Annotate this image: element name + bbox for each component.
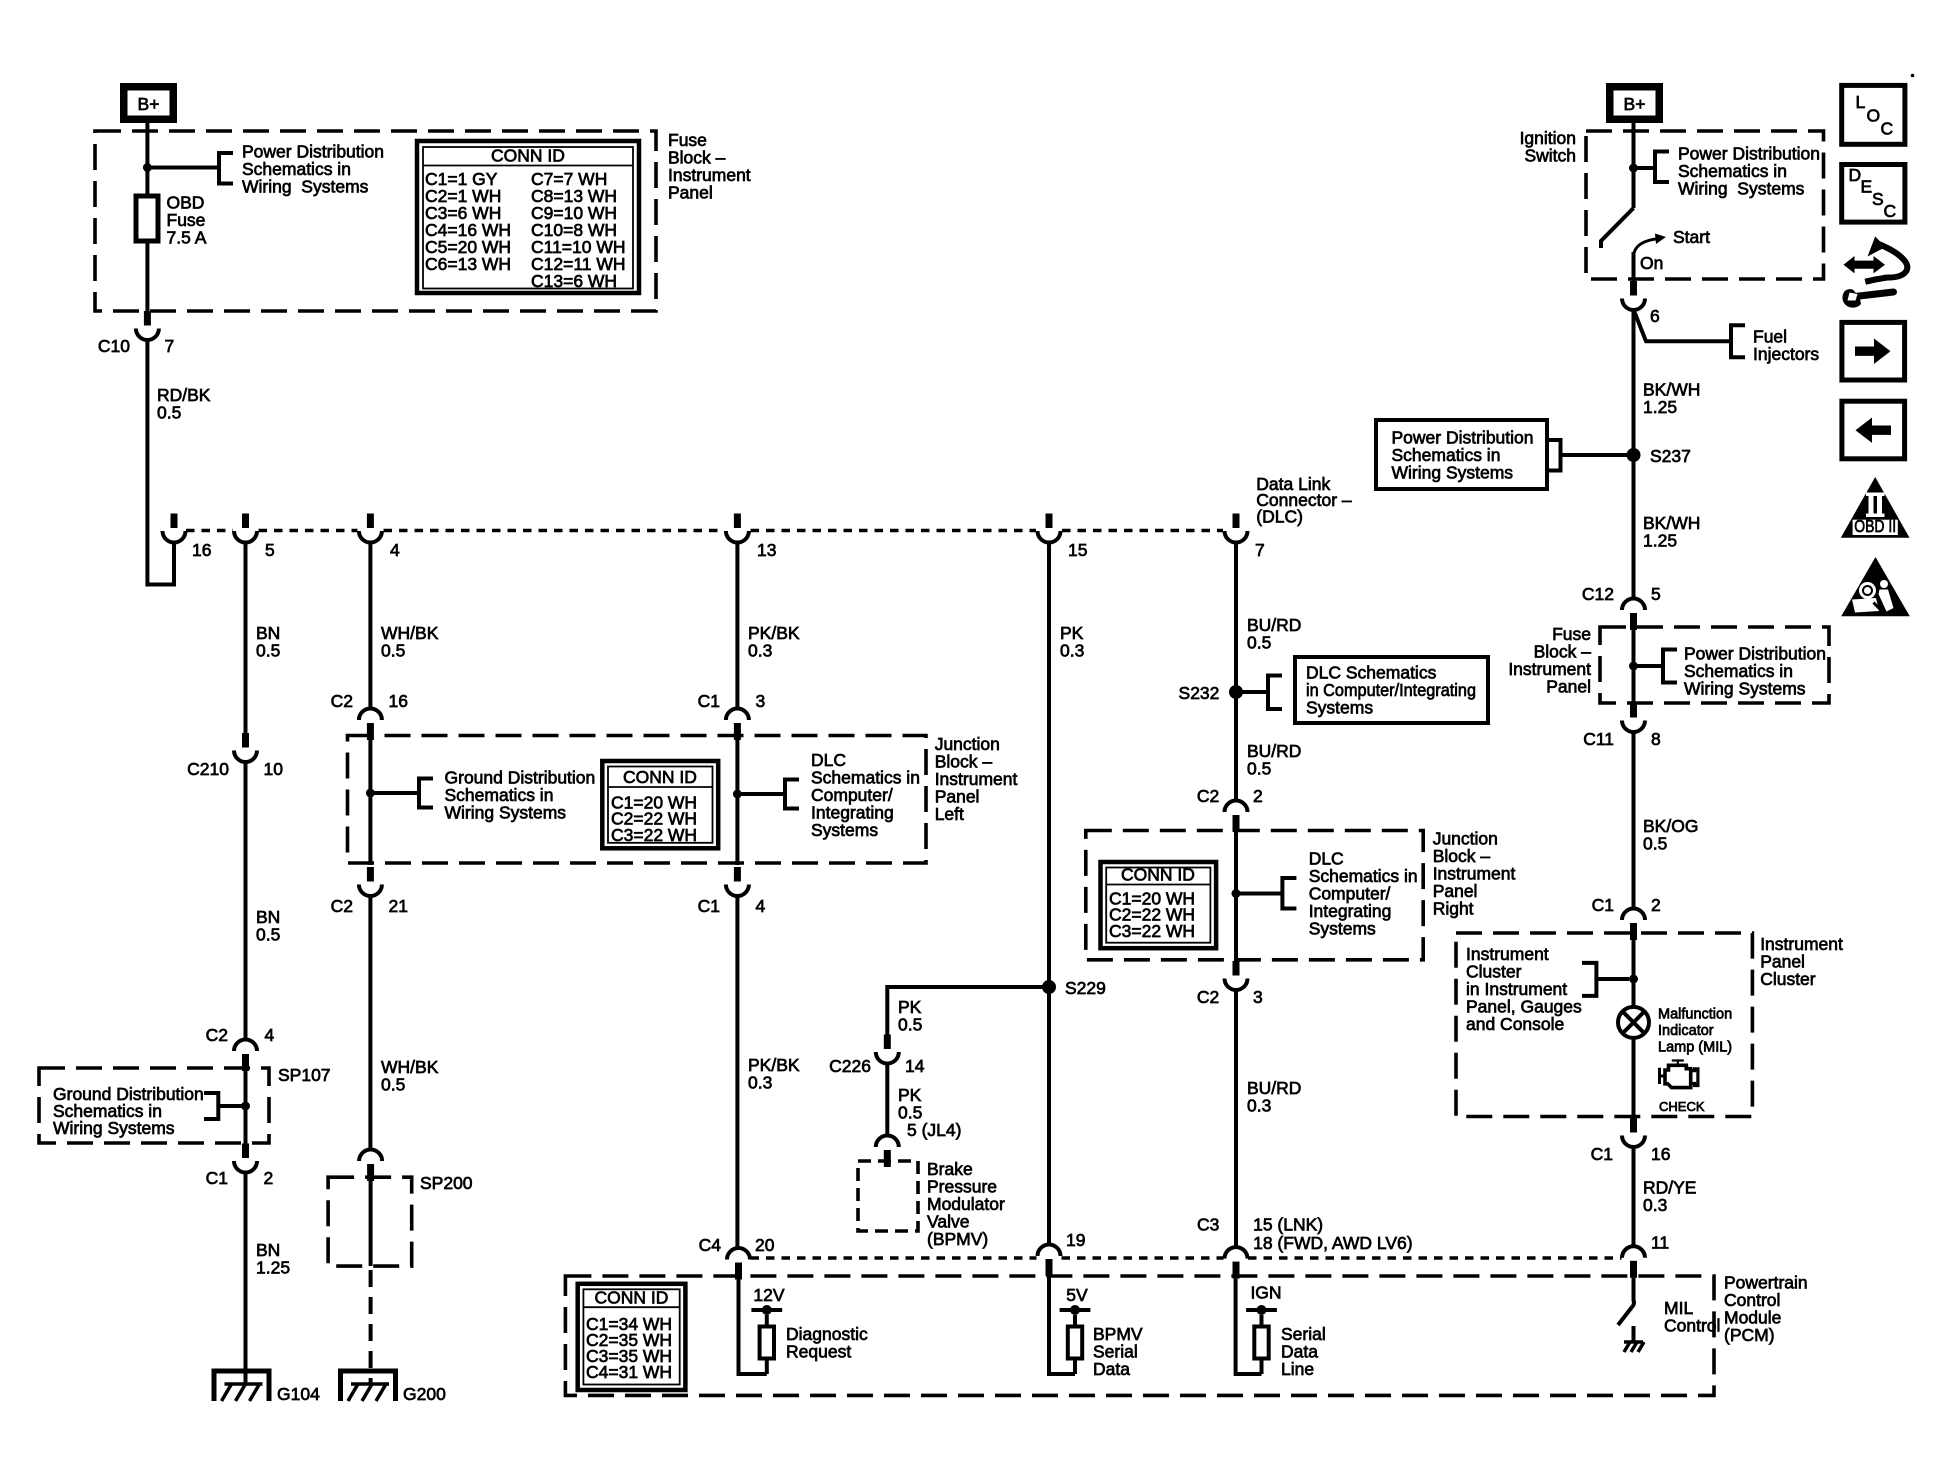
svg-text:0.3: 0.3 (1060, 641, 1084, 661)
wire BK/WH 1.25 (1632, 310, 1636, 600)
reference bracket (ground distribution), opens right (419, 779, 433, 808)
svg-text:5V: 5V (1066, 1285, 1088, 1305)
wire into MIL lamp (1632, 940, 1636, 1007)
wire BN 0.5 (244, 542, 248, 733)
svg-text:O: O (1867, 106, 1881, 126)
connector C12 pin 5 (1622, 599, 1645, 631)
svg-text:CONN ID: CONN ID (1121, 865, 1195, 885)
stray printed dot (1911, 74, 1915, 78)
svg-text:Right: Right (1433, 899, 1474, 919)
svg-text:S229: S229 (1065, 978, 1106, 998)
DLC pin 15 (1038, 514, 1061, 543)
svg-text:D: D (1849, 165, 1862, 185)
wire through junction block (1234, 832, 1238, 961)
fuse OBD 7.5A (136, 196, 158, 241)
svg-text:5: 5 (265, 540, 275, 560)
PCM connector dotted line (751, 1256, 1037, 1259)
svg-text:0.3: 0.3 (748, 641, 772, 661)
svg-text:IGN: IGN (1250, 1283, 1281, 1303)
svg-text:C2: C2 (331, 691, 353, 711)
svg-text:B+: B+ (1624, 94, 1646, 114)
svg-text:10: 10 (264, 759, 284, 779)
connector C1 pin 2 (cluster) (1622, 909, 1645, 941)
connector C2 pin 2 (1225, 801, 1248, 833)
svg-text:15: 15 (1068, 540, 1087, 560)
svg-text:C1: C1 (698, 691, 720, 711)
branch wire to C226 (887, 987, 1049, 1035)
ground G200 (341, 1371, 396, 1401)
svg-text:Data: Data (1093, 1359, 1130, 1379)
wire RD/YE 0.3 (1632, 1147, 1636, 1247)
connector C1 pin 4 (726, 867, 749, 896)
svg-text:C1: C1 (1591, 1144, 1613, 1164)
svg-text:Wiring Systems: Wiring Systems (1684, 679, 1806, 699)
12V diagnostic request pull-up (739, 1280, 767, 1375)
svg-text:14: 14 (905, 1056, 925, 1076)
connector C226 pin 14 (876, 1035, 899, 1064)
splice node (1629, 164, 1638, 173)
svg-text:Wiring Systems: Wiring Systems (445, 803, 567, 823)
junction block instrument panel left dashed box (348, 736, 927, 864)
svg-text:C1: C1 (1592, 895, 1614, 915)
svg-text:13: 13 (757, 540, 776, 560)
IGN serial data line pull-up (1236, 1279, 1262, 1374)
svg-text:Line: Line (1281, 1359, 1314, 1379)
svg-text:8: 8 (1651, 729, 1661, 749)
svg-text:Request: Request (786, 1342, 851, 1362)
svg-text:CHECK: CHECK (1659, 1099, 1705, 1114)
reference bracket, opens right (1663, 650, 1677, 683)
svg-text:C: C (1884, 201, 1897, 221)
OBD II triangle icon (1841, 477, 1910, 538)
svg-text:Injectors: Injectors (1753, 344, 1819, 364)
reference bracket (ground distribution), opens left (204, 1093, 218, 1119)
svg-text:0.5: 0.5 (381, 1075, 405, 1095)
connector C210 pin 10 (234, 733, 257, 762)
svg-text:0.5: 0.5 (256, 925, 280, 945)
CONN ID table (PCM) (578, 1284, 686, 1390)
svg-text:6: 6 (1650, 306, 1660, 326)
connector C2 pin 3 (1225, 961, 1248, 990)
wire PK/BK 0.3 (735, 542, 739, 709)
svg-text:4: 4 (265, 1025, 275, 1045)
svg-text:3: 3 (1253, 987, 1263, 1007)
junction block instrument panel right dashed box (1086, 831, 1423, 960)
wire inside SP200 (369, 1181, 373, 1266)
svg-text:C210: C210 (187, 759, 229, 779)
svg-text:C2: C2 (206, 1025, 228, 1045)
PCM dashed box (565, 1276, 1714, 1395)
svg-text:Left: Left (935, 804, 964, 824)
splice S229 (1042, 980, 1056, 994)
svg-text:Systems: Systems (811, 820, 878, 840)
wire through junction block (735, 740, 739, 865)
connector C11 pin 8 (1622, 703, 1645, 732)
battery B+ terminal (right) (1610, 87, 1660, 120)
svg-text:7: 7 (165, 336, 175, 356)
svg-text:7: 7 (1255, 540, 1265, 560)
svg-text:C12: C12 (1582, 584, 1614, 604)
dashed wire SP200 to G200 (369, 1270, 373, 1384)
svg-text:2: 2 (1253, 786, 1263, 806)
battery B+ terminal (left) (124, 87, 174, 120)
wire PK 0.3 (1047, 542, 1051, 1245)
splice node (1232, 889, 1241, 898)
svg-text:Control: Control (1664, 1316, 1720, 1336)
svg-text:C6=13 WH: C6=13 WH (425, 254, 511, 274)
connector C2 pin 4 (234, 1040, 257, 1072)
reference bracket (fuel injectors), opens right (1731, 325, 1745, 357)
wire fuse to C10 (145, 241, 149, 311)
svg-text:CONN ID: CONN ID (491, 146, 565, 166)
svg-text:0.5: 0.5 (381, 641, 405, 661)
wire BU/RD 0.5 (1234, 542, 1238, 801)
svg-text:2: 2 (264, 1168, 274, 1188)
svg-text:1.25: 1.25 (1643, 397, 1677, 417)
wire PK 0.5 (885, 1063, 889, 1136)
svg-text:Lamp (MIL): Lamp (MIL) (1658, 1040, 1732, 1056)
svg-text:C13=6 WH: C13=6 WH (531, 271, 617, 291)
connector into SP200 (359, 1150, 382, 1182)
wire node to reference bracket (147, 166, 219, 170)
splice node (733, 790, 742, 799)
svg-text:7.5 A: 7.5 A (167, 228, 207, 248)
svg-text:0.5: 0.5 (1247, 633, 1271, 653)
svg-text:18 (FWD, AWD LV6): 18 (FWD, AWD LV6) (1253, 1233, 1412, 1253)
start position arc with arrow (1634, 239, 1659, 254)
svg-text:B+: B+ (138, 94, 160, 114)
check engine icon (1660, 1061, 1698, 1088)
svg-text:15 (LNK): 15 (LNK) (1253, 1214, 1323, 1234)
fuse block instrument panel dashed box (95, 131, 656, 311)
svg-text:21: 21 (389, 896, 408, 916)
svg-text:C2: C2 (331, 896, 353, 916)
svg-text:Systems: Systems (1309, 919, 1376, 939)
svg-text:1.25: 1.25 (1643, 531, 1677, 551)
svg-text:20: 20 (755, 1235, 775, 1255)
node: splice inside fuse block (143, 163, 152, 172)
wire to pin 6 (1632, 252, 1636, 281)
wire WH/BK 0.5 (368, 542, 372, 709)
connector C1 pin 2 (234, 1144, 257, 1173)
svg-text:C4: C4 (699, 1235, 722, 1255)
splice node (1629, 975, 1638, 984)
svg-text:(DLC): (DLC) (1256, 506, 1303, 526)
svg-text:G104: G104 (277, 1384, 320, 1404)
svg-text:C1: C1 (206, 1168, 228, 1188)
svg-text:19: 19 (1066, 1230, 1085, 1250)
svg-text:S237: S237 (1650, 446, 1691, 466)
connector C4 pin 20 (727, 1248, 750, 1280)
svg-text:Cluster: Cluster (1760, 969, 1816, 989)
connector C2 pin 21 (359, 867, 382, 896)
CONN ID table (junction block left) (602, 761, 718, 848)
svg-text:Start: Start (1673, 227, 1710, 247)
wire WH/BK 0.5 to SP200 (368, 898, 372, 1151)
connector 5 (JL4) (876, 1136, 899, 1168)
svg-text:CONN ID: CONN ID (623, 767, 697, 787)
svg-text:16: 16 (192, 540, 211, 560)
svg-text:C2: C2 (1197, 786, 1219, 806)
svg-text:Wiring Systems: Wiring Systems (242, 177, 369, 197)
splice node (366, 789, 375, 798)
svg-text:C226: C226 (829, 1056, 871, 1076)
wire BN 0.5 second (244, 762, 248, 1041)
svg-text:3: 3 (756, 691, 766, 711)
svg-text:0.5: 0.5 (898, 1015, 922, 1035)
splice node SP107 (241, 1102, 250, 1111)
svg-text:G200: G200 (403, 1384, 446, 1404)
connector C3 pins 15/18 (1225, 1247, 1248, 1279)
svg-text:Wiring Systems: Wiring Systems (1678, 179, 1805, 199)
svg-text:CONN ID: CONN ID (595, 1287, 669, 1307)
svg-text:C: C (1881, 119, 1894, 139)
connector C10 pin 7 (136, 311, 159, 340)
svg-text:(PCM): (PCM) (1724, 1325, 1775, 1345)
svg-text:C3: C3 (1197, 1214, 1219, 1234)
svg-text:5: 5 (1651, 584, 1661, 604)
svg-text:C1: C1 (698, 896, 720, 916)
svg-text:S: S (1872, 189, 1884, 209)
LOC icon box (1842, 85, 1905, 144)
svg-text:Indicator: Indicator (1658, 1023, 1714, 1039)
svg-text:C3=22 WH: C3=22 WH (611, 825, 697, 845)
CONN ID table (fuse block) (417, 141, 639, 293)
left arrow icon box (1842, 401, 1905, 459)
svg-text:Wiring Systems: Wiring Systems (53, 1118, 175, 1138)
svg-text:S232: S232 (1179, 683, 1220, 703)
5V BPMV serial data pull-up (1049, 1276, 1075, 1374)
wire RD/BK down to DLC pin 16 (147, 340, 174, 585)
svg-text:E: E (1861, 177, 1873, 197)
svg-text:SP200: SP200 (420, 1173, 473, 1193)
splice S237 (1627, 448, 1641, 462)
reference bracket (DLC schematics), opens right (1282, 878, 1296, 909)
BPMV dashed box (858, 1161, 918, 1231)
svg-text:(BPMV): (BPMV) (927, 1229, 988, 1249)
svg-text:C10: C10 (98, 336, 130, 356)
PCM internal ground (1624, 1342, 1644, 1352)
wire below lamp (1632, 1038, 1636, 1118)
splice S232 (1229, 685, 1243, 699)
svg-text:Wiring Systems: Wiring Systems (1392, 463, 1514, 483)
ignition switch dashed box (1586, 131, 1824, 279)
CONN ID table (junction block right) (1101, 862, 1217, 948)
DLC dashed line (186, 529, 233, 532)
instrument panel cluster dashed box (1456, 933, 1752, 1117)
wire through fuse block (1632, 630, 1636, 703)
svg-text:16: 16 (389, 691, 408, 711)
reference bracket (DLC schematics), opens right (785, 780, 799, 809)
svg-text:0.5: 0.5 (1247, 759, 1271, 779)
DLC pin 7 (1225, 514, 1248, 543)
svg-text:C11: C11 (1583, 729, 1614, 749)
svg-text:0.5: 0.5 (157, 403, 181, 423)
connector pin 6 (1622, 281, 1645, 310)
wire through SP107 (244, 1071, 248, 1144)
ignition switch blade (1601, 208, 1634, 248)
svg-text:Systems: Systems (1306, 697, 1373, 717)
wire B+ to fuse (145, 123, 149, 196)
svg-text:11: 11 (1651, 1233, 1669, 1253)
svg-text:1.25: 1.25 (256, 1258, 290, 1278)
branch to fuel injectors (1634, 310, 1732, 342)
fuse block dashed box (right) (1600, 627, 1829, 703)
airbag warning triangle icon (1841, 557, 1910, 616)
svg-text:0.5: 0.5 (1643, 834, 1667, 854)
svg-text:On: On (1640, 253, 1663, 273)
DLC pin 16 (163, 514, 186, 543)
DLC schematics solid box (1295, 657, 1488, 723)
svg-text:Switch: Switch (1524, 146, 1576, 166)
connector C2 pin 16 (359, 709, 382, 741)
reference bracket, opens left (1582, 963, 1596, 996)
splice node (1629, 662, 1638, 671)
svg-text:0.5: 0.5 (256, 641, 280, 661)
svg-text:Malfunction: Malfunction (1658, 1006, 1732, 1022)
DESC icon box (1842, 165, 1905, 223)
svg-text:L: L (1856, 92, 1866, 112)
svg-text:Panel: Panel (1546, 677, 1591, 697)
svg-text:Panel: Panel (668, 183, 713, 203)
svg-text:0.3: 0.3 (1247, 1096, 1271, 1116)
right arrow icon box (1842, 322, 1905, 380)
reference bracket, opens left (1547, 440, 1561, 471)
DLC pin 4 (359, 514, 382, 543)
svg-text:C4=31 WH: C4=31 WH (586, 1362, 672, 1382)
service/symptoms icon (arrows + wrench) (1842, 237, 1907, 308)
power distribution solid box (1376, 420, 1547, 489)
svg-text:5 (JL4): 5 (JL4) (907, 1120, 961, 1140)
wire BK/OG 0.5 (1632, 732, 1636, 910)
svg-text:2: 2 (1651, 895, 1661, 915)
off-page reference bracket (power distribution) (219, 153, 233, 184)
connector C1 pin 3 (726, 709, 749, 741)
wire B+ into switch (1632, 123, 1636, 208)
ground G104 (214, 1371, 269, 1401)
svg-text:OBD II: OBD II (1854, 516, 1896, 536)
svg-text:C2: C2 (1197, 987, 1219, 1007)
wire BU/RD 0.3 (1234, 990, 1238, 1248)
wire PK/BK 0.3 to PCM (735, 898, 739, 1249)
SP107 dashed box (39, 1068, 269, 1143)
svg-text:C3=22 WH: C3=22 WH (1109, 921, 1195, 941)
wire BN 1.25 to ground (244, 1172, 248, 1384)
svg-text:and Console: and Console (1466, 1014, 1564, 1034)
svg-text:0.3: 0.3 (1643, 1195, 1667, 1215)
DLC pin 5 (234, 514, 257, 543)
svg-text:SP107: SP107 (278, 1065, 331, 1085)
DLC pin 13 (726, 514, 749, 543)
connector pin 11 (1622, 1246, 1645, 1278)
reference bracket (power distribution), opens right (1655, 152, 1669, 183)
reference bracket (DLC schematics), opens right (1268, 676, 1282, 710)
svg-text:4: 4 (390, 540, 400, 560)
connector C1 pin 16 (1622, 1118, 1645, 1147)
svg-text:12V: 12V (753, 1285, 784, 1305)
MIL control switch (1632, 1278, 1634, 1307)
wire through junction block (368, 740, 372, 865)
svg-text:4: 4 (756, 896, 766, 916)
svg-text:0.3: 0.3 (748, 1073, 772, 1093)
SP200 dashed box (328, 1177, 412, 1266)
svg-text:16: 16 (1651, 1144, 1670, 1164)
malfunction indicator lamp (MIL) (1618, 1007, 1649, 1038)
connector pin 19 (1038, 1245, 1061, 1277)
